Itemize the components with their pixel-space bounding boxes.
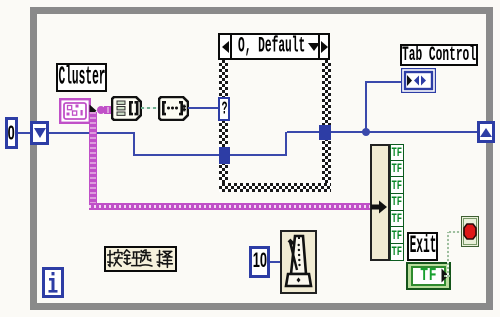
cluster wire dotted horizontal to array indicator	[89, 203, 372, 210]
wire into left tunnel	[133, 154, 220, 156]
TF element 7	[390, 244, 404, 261]
glyph 钮	[124, 250, 130, 254]
function Boolean Array To Number	[158, 96, 189, 121]
black data-flow arrow into indicator	[371, 199, 388, 215]
wire right tunnel to right shift register	[331, 131, 477, 133]
Exit boolean terminal TF	[406, 262, 451, 290]
case structure checkered border: left band	[219, 60, 228, 192]
TF element 3	[390, 177, 404, 194]
numeric constant 10	[249, 246, 270, 278]
cluster wire vertical ribbed	[89, 112, 97, 207]
function Cluster to Array	[111, 96, 142, 121]
selector text	[238, 35, 305, 58]
left tunnel	[219, 147, 230, 164]
wire to right tunnel	[287, 131, 319, 133]
TF element 4	[390, 194, 404, 211]
loop conditional terminal (stop sign)	[461, 216, 479, 247]
wire number to case selector	[188, 107, 220, 109]
cluster wire junction blob	[97, 106, 105, 114]
glyph 按	[108, 251, 110, 267]
boolean-array wire (green dashed)	[141, 107, 159, 109]
Wait Until Next ms Multiple (metronome)	[280, 230, 317, 294]
boolean array TF elements column	[390, 144, 404, 261]
selector right arrow	[318, 35, 328, 58]
cluster wire horizontal ribbed	[104, 106, 113, 114]
Cluster label	[56, 63, 107, 92]
TF element 2	[390, 161, 404, 178]
wire inside case from left tunnel	[230, 154, 287, 156]
iteration terminal i	[42, 267, 64, 298]
wire 10 to wait function	[270, 261, 280, 263]
selector left arrow	[220, 35, 232, 58]
CJK glyph strokes 按钮选择	[107, 249, 174, 269]
wire vertical step	[133, 132, 135, 155]
wire horizontal into tab terminal	[365, 81, 402, 83]
case structure selector label	[218, 33, 330, 60]
left shift register	[30, 121, 49, 145]
right shift register	[477, 121, 495, 143]
wire junction dot	[362, 128, 370, 136]
cluster terminal	[59, 98, 98, 125]
TF element 1	[390, 144, 404, 161]
boolean wire dotted: exit to stop terminal	[444, 275, 450, 277]
free label 按钮选择	[104, 246, 177, 272]
right tunnel	[319, 125, 331, 140]
wire vertical up to tab terminal	[365, 81, 367, 131]
glyph 择	[158, 251, 160, 267]
TF element 5	[390, 211, 404, 228]
wire: left SR right, step down, to case left tunnel	[49, 132, 135, 134]
numeric constant 0 (outside loop)	[5, 117, 18, 149]
glyph 选	[142, 250, 150, 256]
wire 0 to left shift register	[18, 132, 30, 134]
boolean array indicator index frame (tan box)	[370, 144, 390, 261]
Tab Control label	[400, 44, 478, 66]
wire vertical inside case	[285, 132, 287, 156]
tab control terminal	[401, 68, 436, 93]
case selector ? terminal	[218, 97, 230, 121]
Exit label	[407, 232, 438, 261]
case border right band	[322, 60, 331, 192]
case border bottom band	[219, 183, 331, 192]
selector down arrow	[308, 43, 320, 51]
TF element 6	[390, 227, 404, 244]
